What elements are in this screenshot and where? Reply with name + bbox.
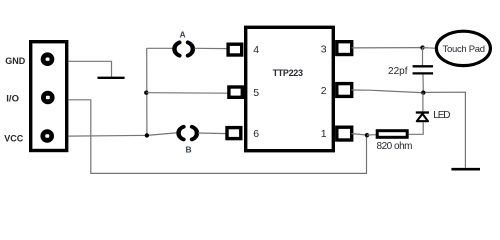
wire I/O pin down and along bottom to output node — [69, 100, 367, 174]
svg-text:5: 5 — [253, 87, 259, 99]
touch pad electrode — [436, 31, 490, 65]
connector pin VCC (bottom circle) — [40, 129, 54, 143]
node C2 (pin2 / cap / LED junction) — [421, 91, 425, 95]
wire node to pin 5 — [146, 92, 228, 95]
jumper A (open pads) — [174, 42, 192, 55]
wire node Q to resistor — [367, 134, 378, 136]
svg-text:I/O: I/O — [6, 94, 19, 105]
op IC U1 TTP223 body — [246, 27, 334, 150]
wire jumper A to pin 4 — [195, 47, 229, 49]
svg-text:B: B — [186, 144, 192, 154]
ground (near connector) — [98, 77, 125, 79]
wire VCC pin to node V1 and jumper B — [69, 133, 177, 136]
svg-text:Touch Pad: Touch Pad — [443, 44, 486, 55]
pad pin 6 — [227, 128, 241, 139]
svg-text:VCC: VCC — [4, 134, 24, 144]
wire node down to capacitor — [422, 48, 424, 66]
pad pin 2 — [337, 84, 352, 97]
wire pin 3 to touch pad node — [352, 47, 423, 49]
wire pin 1 to node Q — [352, 134, 367, 135]
node V1 (VCC / jumper B junction) — [145, 133, 149, 137]
connector pin I/O (middle circle) — [41, 91, 55, 105]
wire jumper B to pin 6 — [198, 132, 228, 135]
connector pin GND (top circle) — [41, 52, 55, 66]
wire pin 2 to node C2 — [352, 90, 422, 93]
capacitor C1 plates — [413, 66, 434, 73]
resistor R1 — [377, 131, 407, 138]
wire LED down to resistor row — [409, 122, 424, 134]
node touch pad / cap junction — [420, 45, 424, 49]
jumper B (open pads) — [179, 127, 197, 140]
svg-text:820 ohm: 820 ohm — [377, 141, 413, 152]
ground (bottom right) — [451, 168, 480, 171]
svg-text:1: 1 — [321, 128, 327, 140]
node Q (pin1 / output junction) — [365, 133, 369, 137]
svg-text:GND: GND — [5, 56, 26, 66]
wire A-row left segment — [147, 47, 173, 49]
node pin5 junction — [144, 91, 148, 95]
svg-text:3: 3 — [321, 43, 327, 55]
pad pin 5 — [229, 87, 242, 97]
pad pin 3 — [337, 42, 352, 55]
svg-text:2: 2 — [321, 85, 327, 97]
svg-text:22pf: 22pf — [388, 66, 408, 77]
svg-text:4: 4 — [253, 44, 259, 56]
pad pin 1 — [337, 127, 352, 140]
wire node to touch pad — [423, 47, 436, 50]
wire vertical bus A-row to B-row — [146, 48, 148, 135]
connector J1 body — [31, 42, 67, 151]
svg-text:LED: LED — [433, 110, 450, 121]
wire capacitor to node C2 — [422, 75, 424, 93]
svg-text:A: A — [180, 30, 186, 40]
pad pin 4 — [228, 44, 242, 55]
LED D1 — [416, 113, 429, 122]
wire node C2 to right rail and down to ground — [426, 92, 466, 168]
wire GND pin to ground — [69, 61, 112, 77]
svg-text:6: 6 — [253, 128, 259, 140]
wire node C2 down to LED — [422, 93, 424, 112]
svg-text:TTP223: TTP223 — [273, 68, 303, 78]
